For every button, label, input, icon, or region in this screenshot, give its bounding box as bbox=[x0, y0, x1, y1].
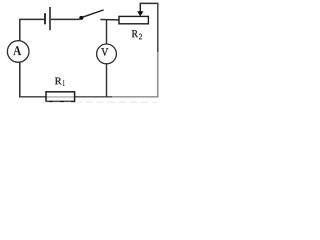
wire (right vertical rail, upper part) bbox=[157, 3, 159, 52]
wire (right vertical rail, lower faded part) bbox=[157, 52, 159, 97]
wire (junction down to voltmeter top) bbox=[106, 19, 108, 44]
ammeter A: letter A bbox=[13, 46, 21, 55]
label R1: subscript 1 bbox=[63, 80, 64, 85]
label R2: subscript 2 bbox=[139, 34, 142, 39]
wire (battery to switch pivot) bbox=[51, 18, 80, 20]
resistor R1: body rectangle bbox=[46, 92, 75, 102]
rheostat R2: body rectangle bbox=[119, 16, 148, 23]
wire (ghost artifact line under bottom rail) bbox=[42, 101, 156, 103]
wire (bottom rail, faded segment to bottom-right corner) bbox=[112, 96, 158, 98]
battery cell: short plate (left) bbox=[44, 13, 46, 24]
battery cell: long plate (right) bbox=[49, 7, 51, 30]
wire (ammeter bottom down to bottom-left corner) bbox=[19, 62, 21, 98]
wire (bottom rail, R1 to voltmeter junction) bbox=[74, 96, 112, 98]
label R2: letter R bbox=[132, 30, 138, 37]
wire (left vertical, corner down to ammeter top) bbox=[19, 19, 21, 41]
switch S: open blade bbox=[82, 10, 103, 17]
wire (bottom rail, left segment to R1) bbox=[19, 96, 46, 98]
wire (top-left horizontal, corner to battery) bbox=[20, 18, 44, 20]
switch S: pivot contact dot bbox=[79, 16, 83, 20]
wire (switch right contact to rheostat R2 left terminal) bbox=[100, 19, 119, 21]
voltmeter V: meter circle bbox=[97, 44, 117, 64]
voltmeter V: letter V bbox=[101, 48, 108, 55]
ammeter A: meter circle bbox=[7, 41, 29, 63]
wire (faint rail segment visible inside R1) bbox=[47, 96, 75, 98]
label R1: letter R bbox=[55, 78, 62, 85]
rheostat R2: wiper stem bbox=[139, 3, 141, 12]
wire (voltmeter bottom down to bottom rail) bbox=[106, 64, 108, 97]
rheostat R2: wiper arrowhead bbox=[137, 11, 143, 16]
wire (wiper to top-right corner) bbox=[140, 2, 158, 4]
